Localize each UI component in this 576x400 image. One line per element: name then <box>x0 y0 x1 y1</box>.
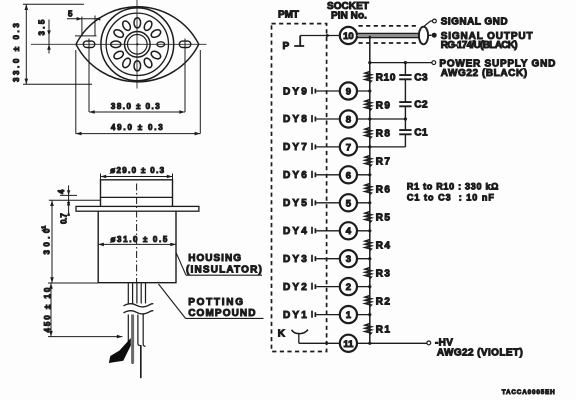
vertical centerline (dash-dot) <box>136 184 138 283</box>
dim 33.0±0.3 vertical line <box>25 4 27 84</box>
dim 49.0±0.3 <box>75 50 77 134</box>
svg-text:R9: R9 <box>376 100 391 111</box>
wire DY6 to pin 6 <box>316 174 370 176</box>
svg-text:PMT: PMT <box>278 10 299 21</box>
center dot <box>136 43 138 45</box>
svg-text:7: 7 <box>346 142 351 153</box>
svg-text:R10: R10 <box>376 72 396 83</box>
resistor R6 <box>365 184 371 195</box>
socket pin 4 <box>340 222 357 239</box>
svg-text:5: 5 <box>68 10 73 19</box>
housing body <box>98 211 176 283</box>
resistor R10 <box>365 72 371 83</box>
socket pin 7 <box>340 138 357 155</box>
PMT dashed outline box <box>272 24 327 352</box>
svg-text:4: 4 <box>346 226 352 237</box>
socket pin 8 <box>340 110 357 127</box>
svg-text:3: 3 <box>346 254 351 265</box>
wire K to pin 11 <box>299 342 340 344</box>
power supply gnd wire <box>370 62 432 64</box>
svg-text:POTTING: POTTING <box>188 297 243 308</box>
svg-text:COMPOUND: COMPOUND <box>188 308 256 319</box>
svg-text:R7: R7 <box>376 156 391 167</box>
socket top view: center line vertical <box>136 0 138 89</box>
svg-text:P: P <box>283 41 290 52</box>
wire DY4 to pin 4 <box>316 230 370 232</box>
svg-text:ø29.0 ± 0.3: ø29.0 ± 0.3 <box>110 166 164 175</box>
capacitor chain bus wire <box>404 63 406 76</box>
svg-text:PIN No.: PIN No. <box>331 11 367 22</box>
svg-text:3.5: 3.5 <box>38 19 47 35</box>
socket pin 11 <box>340 335 357 352</box>
flange (eye-shaped mounting plate) <box>76 7 199 82</box>
center hole inner circle <box>128 35 148 55</box>
socket pin 6 <box>340 166 357 183</box>
anode electrode symbol <box>294 36 304 47</box>
thick grey wire <box>131 315 134 364</box>
svg-text:1: 1 <box>346 310 352 321</box>
wire DY2 to pin 2 <box>316 286 370 288</box>
resistor R3 <box>365 268 371 279</box>
resistor R9 <box>365 100 371 111</box>
coax centre conductor (double line) <box>357 33 419 35</box>
svg-text:HOUSING: HOUSING <box>188 253 241 264</box>
svg-text:C3: C3 <box>414 73 428 84</box>
svg-text:5: 5 <box>346 198 352 209</box>
socket outer rim circle <box>101 8 174 81</box>
coax shield dashed lines <box>359 25 420 27</box>
capacitor C3 <box>399 75 411 79</box>
wire pin 11 to -HV terminal <box>357 342 427 344</box>
svg-text:K: K <box>278 329 286 340</box>
wire break marks <box>124 304 154 307</box>
svg-text:DY3: DY3 <box>283 254 307 265</box>
svg-text:ø31.0 ± 0.5: ø31.0 ± 0.5 <box>111 235 168 244</box>
resistor R5 <box>365 212 371 223</box>
resistor R1 <box>365 324 371 335</box>
svg-text:9: 9 <box>346 87 351 98</box>
svg-text:C1: C1 <box>414 128 428 139</box>
socket pin 5 <box>340 194 357 211</box>
svg-text:11: 11 <box>343 339 354 350</box>
svg-text:38.0 ± 0.3: 38.0 ± 0.3 <box>111 102 160 111</box>
svg-text:DY6: DY6 <box>283 170 307 181</box>
capacitor C2 <box>399 102 411 106</box>
signal gnd terminal <box>424 21 433 27</box>
svg-text:AWG22 (BLACK): AWG22 (BLACK) <box>441 68 528 79</box>
svg-text:(INSULATOR): (INSULATOR) <box>186 265 262 276</box>
-HV terminal <box>427 341 431 345</box>
socket inner rim circle <box>106 13 168 75</box>
housing top cap (ø29 section) <box>101 180 173 207</box>
signal output terminal <box>428 34 431 36</box>
svg-text:DY4: DY4 <box>283 226 307 237</box>
socket pin 10 <box>340 27 357 44</box>
dim 38.0±0.3 <box>88 39 90 113</box>
index hole (small oval at 3 o'clock) <box>157 42 165 47</box>
wire DY9 to pin 9 <box>316 90 370 92</box>
svg-text:C1 to C3 : 10 nF: C1 to C3 : 10 nF <box>407 193 495 203</box>
svg-text:R8: R8 <box>376 128 391 139</box>
pin holes ring (11 ovals) <box>111 18 162 71</box>
resistor R4 <box>365 240 371 251</box>
svg-text:R2: R2 <box>376 296 391 307</box>
svg-text:AWG22 (VIOLET): AWG22 (VIOLET) <box>437 348 523 359</box>
svg-text:C2: C2 <box>414 100 428 111</box>
svg-text:DY9: DY9 <box>283 86 307 97</box>
black sleeve flag <box>109 338 131 363</box>
lead wires lower bundle <box>128 315 145 365</box>
socket pin 1 <box>340 306 357 323</box>
svg-text:R1 to R10 : 330 kΩ: R1 to R10 : 330 kΩ <box>407 181 499 191</box>
center hole outer circle <box>125 32 151 58</box>
left mounting slot <box>83 41 95 47</box>
resistor chain bus wire <box>369 37 371 343</box>
wire DY1 to pin 1 <box>316 314 370 316</box>
svg-text:49.0 ± 0.3: 49.0 ± 0.3 <box>111 123 163 132</box>
svg-text:DY8: DY8 <box>283 114 307 125</box>
svg-text:8: 8 <box>346 114 351 125</box>
right mounting slot <box>179 41 191 47</box>
resistor R8 <box>365 128 371 139</box>
wire DY5 to pin 5 <box>316 202 370 204</box>
svg-text:4: 4 <box>57 189 66 194</box>
socket pin 3 <box>340 250 357 267</box>
svg-text:R5: R5 <box>376 212 391 223</box>
svg-text:R1: R1 <box>376 324 391 335</box>
svg-text:R3: R3 <box>376 268 391 279</box>
coax cable cross-section ellipse <box>419 27 428 45</box>
resistor R7 <box>365 156 371 167</box>
svg-text:DY2: DY2 <box>283 282 307 293</box>
lead wires upper bundle <box>128 283 145 304</box>
cap step line <box>101 196 173 198</box>
wire DY7 to pin 7 <box>316 146 405 148</box>
svg-text:DY7: DY7 <box>283 142 307 153</box>
svg-text:R6: R6 <box>376 184 391 195</box>
svg-text:DY5: DY5 <box>283 198 307 209</box>
svg-text:33.0 ± 0.3: 33.0 ± 0.3 <box>12 23 21 82</box>
resistor R2 <box>365 296 371 307</box>
wire anode to pin 10 <box>300 35 340 37</box>
svg-text:2: 2 <box>346 282 351 293</box>
wire DY8 to pin 8 <box>316 118 405 120</box>
wire DY3 to pin 3 <box>316 258 370 260</box>
flange plate <box>76 206 199 211</box>
svg-text:RG-174/U(BLACK): RG-174/U(BLACK) <box>441 40 518 51</box>
svg-text:10: 10 <box>343 31 354 42</box>
svg-text:6: 6 <box>346 170 351 181</box>
svg-text:DY1: DY1 <box>283 310 307 321</box>
svg-text:+1: +1 <box>42 226 48 232</box>
photocathode symbol <box>292 330 309 334</box>
svg-text:R4: R4 <box>376 240 391 251</box>
svg-text:0.7: 0.7 <box>60 213 69 224</box>
thin wire end <box>140 345 142 378</box>
svg-text:SIGNAL GND: SIGNAL GND <box>441 17 508 28</box>
socket pin 2 <box>340 278 357 295</box>
capacitor C1 <box>399 130 411 134</box>
socket pin 9 <box>340 82 357 99</box>
svg-text:TACCA0005EH: TACCA0005EH <box>502 389 555 396</box>
socket top view: center line horizontal <box>31 43 207 45</box>
